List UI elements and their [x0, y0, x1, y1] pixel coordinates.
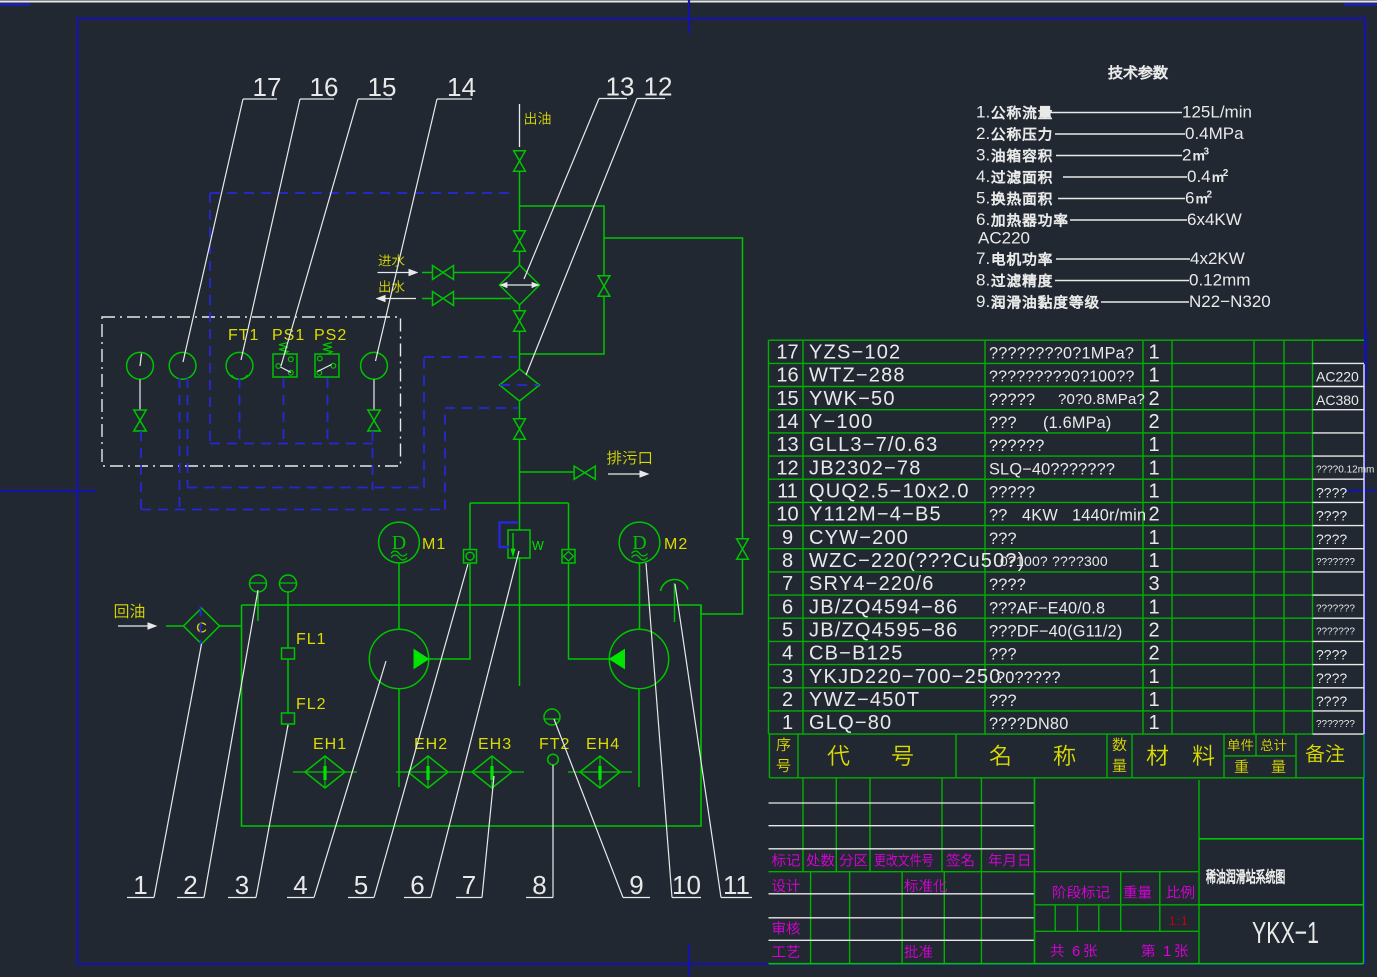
svg-text:M2: M2 [664, 536, 688, 553]
svg-text:????: ???? [989, 576, 1026, 594]
wire CV1 to pump P1 outlet [429, 563, 471, 659]
svg-text:0?100? ????300: 0?100? ????300 [1000, 553, 1108, 569]
callout 17 leader [243, 98, 277, 100]
svg-text:EH3: EH3 [478, 736, 512, 753]
parts table grid [769, 340, 1313, 734]
header daihao [828, 745, 850, 766]
valve V1 on outlet line [514, 151, 526, 161]
wire main line V1 to tee [519, 172, 521, 230]
svg-text:FT1: FT1 [228, 327, 259, 344]
wire V4 down to manifold [519, 440, 521, 503]
signal wire rect bottom [210, 443, 374, 445]
svg-text:9.: 9. [976, 292, 990, 311]
svg-text:1: 1 [1149, 342, 1160, 364]
pressure switch PS2 (item 15) box [315, 354, 339, 377]
water inlet arrow [378, 272, 414, 274]
revision row labels [772, 853, 800, 866]
svg-text:EH4: EH4 [586, 736, 620, 753]
svg-text:????: ???? [1316, 485, 1347, 501]
svg-text:C: C [196, 620, 207, 637]
svg-text:YWK−50: YWK−50 [809, 388, 896, 410]
top white screen edge line [0, 1, 1377, 3]
svg-text:????DN80: ????DN80 [989, 715, 1068, 733]
header shuliang [1113, 737, 1127, 751]
water inlet wire [422, 272, 433, 274]
svg-text:125L/min: 125L/min [1182, 103, 1252, 122]
svg-text:???: ??? [989, 692, 1017, 710]
callout 15 leader [358, 98, 392, 100]
svg-text:8: 8 [782, 550, 793, 572]
header zongji [1261, 739, 1287, 751]
svg-text:???: ??? [989, 646, 1017, 664]
svg-text:FL1: FL1 [296, 631, 327, 648]
svg-text:AC220: AC220 [1316, 369, 1359, 385]
signal wire below GV1 [140, 431, 142, 510]
callout 5 leader [348, 897, 374, 899]
signal wire into filter bottom side [445, 407, 518, 409]
signal stub below PS1 [283, 378, 285, 444]
svg-text:3.: 3. [976, 146, 990, 165]
header mingcheng [990, 745, 1010, 766]
wire strainer to tank [220, 625, 242, 627]
instrument panel dash-dot box [102, 317, 401, 466]
callout 8 leader [526, 897, 553, 899]
svg-text:1: 1 [1149, 481, 1160, 503]
relief valve W (item 6) body [508, 530, 530, 558]
wire LG2 stem [287, 592, 289, 648]
svg-text:CB−B125: CB−B125 [809, 643, 904, 665]
signal wire vertical filter upper [423, 357, 425, 488]
wire below FL2 [287, 724, 289, 727]
svg-text:1: 1 [1149, 550, 1160, 572]
return strainer C (item 1) diamond [184, 608, 220, 644]
tank inlet wire from right pipe notch [700, 605, 702, 614]
label gongyi [772, 945, 799, 958]
svg-text:????0.12mm: ????0.12mm [1316, 464, 1374, 475]
svg-text:WTZ−288: WTZ−288 [809, 365, 906, 387]
wire W valve to tank [519, 558, 521, 686]
oil tank (item 2) rectangle [242, 605, 702, 826]
wire CV2 to pump P2 outlet [569, 563, 610, 659]
svg-text:6: 6 [782, 596, 793, 618]
svg-text:10: 10 [672, 870, 701, 900]
level switch FL1 box [282, 648, 295, 659]
pump P2 triangle [610, 650, 625, 669]
signal dashes through filter diamond [500, 384, 539, 386]
svg-text:8: 8 [532, 870, 546, 900]
label pizhun [904, 945, 932, 958]
signal wire below PG2 inner [187, 378, 189, 488]
svg-text:???: ??? [989, 414, 1017, 432]
callout 10 leader [672, 897, 701, 899]
svg-text:15: 15 [368, 72, 397, 102]
svg-text:2: 2 [1223, 168, 1229, 179]
svg-text:3: 3 [1149, 573, 1160, 595]
svg-text:0.4: 0.4 [1187, 167, 1211, 186]
bypass valve V5 [598, 276, 610, 286]
check valve CV1 (item 5) [464, 550, 477, 564]
svg-text:N22−N320: N22−N320 [1189, 292, 1271, 311]
header zhongliang [1235, 760, 1248, 773]
wire FL1 to FL2 [287, 659, 289, 713]
svg-text:Y−100: Y−100 [809, 411, 873, 433]
svg-text:QUQ2.5−10x2.0: QUQ2.5−10x2.0 [809, 481, 970, 503]
svg-text:????: ???? [1316, 670, 1347, 686]
level gauge connector LG2 [280, 575, 297, 592]
svg-text:???DF−40(G11/2): ???DF−40(G11/2) [989, 623, 1122, 641]
wire WV2 to HX [453, 298, 511, 300]
svg-text:2.: 2. [976, 124, 990, 143]
svg-text:???AF−E40/0.8: ???AF−E40/0.8 [989, 599, 1105, 617]
heater EH3 (item 7) diamond [472, 756, 512, 788]
level gauge connector LG1 [250, 575, 267, 592]
callout 4 leader [287, 897, 314, 899]
svg-text:4.: 4. [976, 167, 990, 186]
water outlet arrow [381, 298, 416, 300]
svg-text:5: 5 [782, 620, 793, 642]
svg-text:????: ???? [1316, 508, 1347, 524]
svg-text:PS2: PS2 [314, 327, 347, 344]
pump P1 triangle [414, 650, 429, 669]
gauge valve GV1 [134, 410, 146, 421]
heater EH4 through-wire [568, 771, 632, 773]
svg-text:GLL3−7/0.63: GLL3−7/0.63 [809, 434, 938, 456]
water outlet wire [422, 298, 433, 300]
svg-text:14: 14 [776, 411, 798, 433]
svg-text:FL2: FL2 [296, 696, 327, 713]
header cailiao [1147, 745, 1168, 766]
svg-text:(1.6MPa): (1.6MPa) [1043, 414, 1112, 432]
signal wire rect left [209, 193, 211, 444]
svg-text:CYW−200: CYW−200 [809, 527, 909, 549]
svg-text:5.: 5. [976, 189, 990, 208]
svg-text:3: 3 [1204, 147, 1210, 158]
label jieduanbiaoji [1053, 885, 1109, 898]
signal wire horizontal lower [141, 509, 445, 511]
blue grip mark near W valve [500, 523, 519, 548]
svg-text:1: 1 [782, 712, 793, 734]
pressure gauge PG2 (item 17) [169, 352, 196, 379]
svg-text:6: 6 [1185, 189, 1194, 208]
wire manifold to W relief valve [519, 503, 521, 530]
wire LG1 stem [257, 592, 259, 621]
svg-text:0.12mm: 0.12mm [1189, 271, 1250, 290]
right block grid [769, 778, 1364, 964]
pump manifold wire [470, 502, 569, 504]
blue tick top-left [0, 3, 30, 6]
svg-text:5: 5 [354, 870, 368, 900]
svg-text:6x4KW: 6x4KW [1187, 210, 1242, 229]
filter F1 (item 12) diamond [500, 369, 540, 401]
svg-text:??????: ?????? [989, 437, 1045, 455]
heater EH1 through-wire [293, 771, 357, 773]
label di 1 zhang [1142, 944, 1155, 957]
callout 7 leader [456, 897, 482, 899]
header xuhao [776, 737, 790, 751]
svg-text:YKJD220−700−250: YKJD220−700−250 [809, 666, 1002, 688]
svg-text:JB2302−78: JB2302−78 [809, 457, 922, 479]
temperature gauge FT1 (item 16) [226, 352, 253, 379]
svg-text:6.: 6. [976, 210, 990, 229]
svg-text:13: 13 [606, 72, 635, 102]
header danjian [1228, 739, 1254, 751]
svg-text:4: 4 [293, 870, 307, 900]
signal wire below GV2 [372, 431, 374, 490]
svg-text:2: 2 [1149, 411, 1160, 433]
label shenhe [773, 921, 800, 934]
PS2 lever [318, 365, 332, 372]
svg-text:1: 1 [1149, 666, 1160, 688]
heater EH3 through-wire [460, 771, 524, 773]
signal stub below FT1 [239, 378, 241, 444]
label sheji [772, 879, 800, 892]
heater EH2 through-wire [396, 771, 460, 773]
blue tick left edge [0, 490, 96, 492]
svg-text:10: 10 [776, 504, 798, 526]
signal wire below PG2 outer [179, 378, 181, 510]
svg-text:8.: 8. [976, 271, 990, 290]
wire M2 to P2 [639, 563, 641, 629]
svg-text:15: 15 [776, 388, 798, 410]
svg-text:?????????0?100??: ?????????0?100?? [989, 369, 1135, 386]
callout 1 leader [127, 897, 154, 899]
wire WV1 to HX [453, 272, 511, 274]
heater EH1 (item 7) diamond [305, 756, 345, 788]
heater EH2 (item 7) diamond [408, 756, 448, 788]
callout 3 leader [228, 897, 256, 899]
svg-text:YZS−102: YZS−102 [809, 342, 901, 364]
svg-text:4: 4 [782, 643, 793, 665]
svg-text:1:1: 1:1 [1169, 914, 1189, 928]
svg-text:16: 16 [776, 365, 798, 387]
svg-text:3: 3 [782, 666, 793, 688]
blowdown valve V7 [574, 466, 585, 479]
svg-text:1.: 1. [976, 103, 990, 122]
svg-text:17: 17 [776, 342, 798, 364]
water inlet valve WV1 [433, 266, 444, 280]
label biaozhunhua [904, 879, 947, 892]
svg-text:1: 1 [1149, 365, 1160, 387]
signal wire into filter top side [424, 356, 517, 358]
label bili [1167, 885, 1194, 898]
motor M2 (item 10) circle [619, 522, 660, 563]
svg-text:???????: ??????? [1316, 557, 1355, 568]
air breather stem [674, 583, 676, 622]
wire V2 to HX top [519, 252, 521, 265]
pressure gauge PG3 (item 14) [361, 352, 388, 379]
callout 6 leader [404, 897, 431, 899]
heat exchanger HX (item 13) diamond [500, 265, 540, 305]
FT2 probe circle [548, 754, 559, 765]
valve V6 on right drop pipe [737, 539, 749, 549]
revision area white lines [769, 803, 1035, 849]
heater EH3 element [491, 757, 493, 787]
signoff area white lines [769, 894, 1035, 941]
heater EH4 element [599, 757, 601, 787]
bypass wire bottom [520, 297, 605, 354]
svg-text:7.: 7. [976, 249, 990, 268]
PS1 spring [279, 343, 288, 355]
svg-text:????: ???? [1316, 531, 1347, 547]
blowdown arrow [608, 473, 644, 475]
wire left branch down from manifold [469, 503, 471, 550]
svg-text:???????: ??????? [1316, 719, 1355, 730]
heater EH2 element [427, 757, 429, 787]
callout 14 leader [437, 98, 472, 100]
svg-text:1: 1 [1149, 596, 1160, 618]
svg-text:1: 1 [1163, 943, 1171, 960]
heater EH4 (item 7) diamond [580, 756, 620, 788]
svg-text:JB/ZQ4595−86: JB/ZQ4595−86 [809, 620, 959, 642]
label gong 6 zhang [1051, 944, 1064, 957]
svg-text:?????: ????? [989, 391, 1035, 409]
water inlet label jinshui [379, 254, 405, 266]
svg-text:YWZ−450T: YWZ−450T [809, 689, 920, 711]
white double arrow inside HX [504, 284, 535, 286]
svg-text:2: 2 [1149, 643, 1160, 665]
pressure switch PS1 (item 15) box [273, 354, 297, 377]
wire return line to strainer C [166, 625, 184, 627]
signal wire rect top [210, 192, 516, 194]
motor M1 (item 10) circle [379, 522, 420, 563]
pump P1 (item 4) circle [369, 629, 428, 688]
svg-text:1: 1 [1149, 527, 1160, 549]
svg-text:12: 12 [776, 457, 798, 479]
drawing title xiyouruhuazhan xitongtu [1206, 869, 1284, 884]
svg-text:GLQ−80: GLQ−80 [809, 712, 892, 734]
valve V2 above heat exchanger [514, 231, 526, 241]
svg-text:11: 11 [723, 870, 750, 900]
svg-text:????: ???? [1316, 647, 1347, 663]
parts table remark column white lines [1313, 363, 1365, 734]
svg-text:1: 1 [133, 870, 147, 900]
drain wire to blowdown valve [520, 471, 575, 473]
signal dashes through strainer C [200, 606, 202, 645]
svg-text:1440r/min: 1440r/min [1072, 507, 1146, 525]
wire HX bottom to valve V3 [519, 305, 521, 310]
svg-text:14: 14 [447, 72, 476, 102]
valve V3 below heat exchanger [514, 311, 526, 321]
valve V4 below filter [514, 419, 526, 429]
svg-text:AC380: AC380 [1316, 392, 1359, 408]
svg-text:????????0?1MPa?: ????????0?1MPa? [989, 345, 1134, 363]
blue tick right edge [1345, 489, 1377, 491]
svg-text:???????: ??????? [1316, 627, 1355, 638]
tech parameters title [1109, 65, 1168, 79]
svg-text:M1: M1 [422, 536, 446, 553]
PS2 spring [323, 343, 332, 355]
svg-text:2: 2 [1149, 504, 1160, 526]
return oil arrow [118, 625, 152, 627]
blowdown label paiwukou [607, 451, 651, 465]
svg-text:YKX−1: YKX−1 [1252, 915, 1319, 950]
svg-text:1: 1 [1149, 434, 1160, 456]
svg-text:16: 16 [310, 72, 339, 102]
callout 16 leader [300, 98, 334, 100]
callout 9 leader [623, 897, 650, 899]
svg-text:Y112M−4−B5: Y112M−4−B5 [809, 504, 942, 526]
wire M1 to P1 [398, 563, 400, 629]
heater EH1 element [324, 757, 326, 787]
air breather (item 11) dome arc [661, 580, 689, 591]
svg-text:17: 17 [253, 72, 282, 102]
wire right branch down from manifold [568, 503, 570, 550]
svg-text:7: 7 [782, 573, 793, 595]
blue tick crossing bottom frame [688, 944, 690, 977]
svg-text:1: 1 [1149, 457, 1160, 479]
svg-text:2: 2 [1149, 620, 1160, 642]
PS1 lever [281, 367, 292, 373]
svg-text:JB/ZQ4594−86: JB/ZQ4594−86 [809, 596, 959, 618]
callout 13 leader [599, 98, 627, 100]
svg-text:6: 6 [1072, 943, 1080, 960]
level switch FL2 box [282, 713, 295, 724]
pressure gauge PG1 (item 17) [127, 352, 154, 379]
svg-text:2: 2 [1207, 190, 1213, 201]
svg-text:1: 1 [1149, 689, 1160, 711]
svg-text:0.4MPa: 0.4MPa [1185, 124, 1244, 143]
water outlet label chushui [380, 280, 405, 292]
wire V3 to filter top [519, 332, 521, 369]
svg-text:?0?0.8MPa?: ?0?0.8MPa? [1058, 391, 1145, 408]
middle block grid [1035, 778, 1200, 964]
label zhongliang scale [1124, 885, 1152, 898]
svg-text:2: 2 [183, 870, 197, 900]
svg-text:W: W [532, 539, 544, 553]
pump P2 (item 4) circle [609, 629, 668, 688]
blue tick crossing top frame [688, 0, 690, 33]
callout 12 leader [637, 98, 665, 100]
blue tick top-right [1344, 3, 1377, 6]
svg-text:???????: ??????? [1316, 603, 1355, 614]
parts list header grid [769, 734, 1364, 778]
svg-text:4x2KW: 4x2KW [1190, 249, 1245, 268]
svg-text:4KW: 4KW [1022, 507, 1058, 525]
svg-text:7: 7 [462, 870, 476, 900]
svg-text:?0?????: ?0????? [996, 669, 1061, 687]
check valve CV2 (item 5) [562, 550, 575, 564]
title block revision area grid [769, 778, 1200, 872]
svg-text:9: 9 [782, 527, 793, 549]
signoff area grid [811, 872, 1035, 964]
svg-text:1: 1 [1149, 712, 1160, 734]
svg-text:AC220: AC220 [978, 229, 1030, 248]
signal wire horizontal to filter upper [188, 487, 425, 489]
PG3 stem [373, 380, 375, 411]
water outlet valve WV2 [433, 292, 444, 306]
signal stub below PS2 [327, 378, 329, 444]
svg-text:EH1: EH1 [313, 736, 347, 753]
PG1 stem [139, 380, 141, 411]
wire to right drop pipe [604, 238, 743, 538]
relief valve internal arrow [512, 533, 514, 551]
svg-text:3: 3 [235, 870, 249, 900]
wire P2 suction [638, 689, 640, 787]
gauge valve GV2 [368, 410, 380, 421]
svg-text:2: 2 [782, 689, 793, 711]
svg-text:12: 12 [644, 72, 673, 102]
svg-text:2: 2 [1182, 146, 1191, 165]
svg-text:????: ???? [1316, 693, 1347, 709]
return oil label huiyou [115, 604, 144, 619]
outlet flow line (white) above valve V1 [519, 104, 521, 147]
callout 2 leader [177, 897, 204, 899]
svg-text:?????: ????? [989, 484, 1035, 502]
wire filter bottom to valve V4 [519, 401, 521, 418]
svg-text:11: 11 [777, 481, 798, 503]
label chuyou (oil out) [525, 112, 550, 125]
svg-text:SLQ−40???????: SLQ−40??????? [989, 460, 1115, 478]
